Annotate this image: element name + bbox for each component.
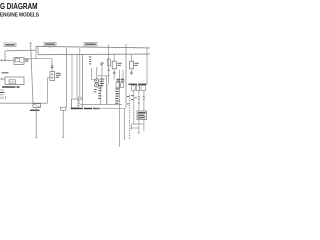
- wire V124 lower: [123, 108, 125, 140]
- ignition coil label below: [2, 86, 20, 87]
- fuse A wire top: [113, 55, 115, 62]
- wire tag marks right: [127, 95, 137, 104]
- fuse A label: [117, 63, 121, 66]
- component text row: [71, 108, 100, 109]
- magneto terminal mark: [61, 107, 66, 110]
- horn label: [100, 79, 105, 87]
- starter relay R1: [50, 72, 55, 81]
- wire corner lower left: [132, 124, 134, 130]
- label box main switch: [44, 42, 56, 46]
- connector block 3: [141, 86, 146, 91]
- wire bus H1 left: [5, 49, 36, 52]
- wire vertical V30 long: [29, 43, 33, 105]
- pickup label: [30, 110, 40, 111]
- wire right edge vertical: [146, 48, 148, 85]
- wire vertical V119: [119, 70, 121, 147]
- wire vertical V82 long: [82, 54, 84, 107]
- wire color marks V90: [89, 57, 91, 65]
- ignition coil label top: [2, 72, 9, 73]
- cdi top connector: [78, 97, 82, 99]
- fuse A: [112, 61, 116, 69]
- connector block 2: [136, 86, 140, 91]
- svg-text:ENGINE MODELS: ENGINE MODELS: [0, 12, 39, 18]
- wire vertical below magneto: [62, 110, 64, 137]
- relay label: [56, 73, 61, 78]
- fuse B wire bottom: [130, 69, 133, 75]
- wire vertical to horn top: [96, 67, 98, 79]
- wire to relay coil: [92, 68, 95, 79]
- cdi unit box: [72, 99, 81, 108]
- label box harness: [84, 42, 97, 46]
- right cluster text block upper: [116, 79, 124, 82]
- wire feed to main switch: [0, 59, 14, 62]
- marks below horn: [94, 89, 97, 92]
- fuse B wire top: [131, 55, 133, 62]
- wire corner left drop: [4, 51, 6, 61]
- wire stub above H1: [108, 45, 110, 48]
- wire join lower a: [134, 123, 144, 125]
- wire below block 1: [133, 91, 135, 125]
- wire vertical V80: [79, 48, 81, 97]
- wire drop b: [106, 76, 108, 105]
- left column labels mid: [98, 85, 101, 99]
- wire switch drop V36: [35, 50, 37, 59]
- title line 1: [0, 1, 38, 11]
- wire bus H1 main: [36, 46, 150, 48]
- wire label leader: [49, 46, 51, 48]
- wire below block 3: [143, 91, 145, 112]
- fuse B: [130, 61, 134, 69]
- wire stub left 1: [0, 89, 4, 91]
- wire feed to coil: [0, 78, 5, 80]
- wire vertical to cdi a: [71, 55, 73, 98]
- wire bus H1 step: [35, 46, 37, 50]
- wire vertical to cdi b: [76, 55, 78, 98]
- wire vertical V126 long: [125, 44, 127, 108]
- wire below unit b: [143, 120, 145, 131]
- svg-text:G DIAGRAM: G DIAGRAM: [0, 1, 38, 11]
- wire horizontal H4: [80, 104, 122, 106]
- rectifier unit box: [137, 111, 147, 120]
- wire bus H2 riser: [37, 47, 39, 54]
- wire join lower b: [130, 127, 139, 129]
- fuse A wire bottom: [113, 69, 116, 80]
- label box battery: [4, 43, 16, 47]
- wire vertical V108: [107, 48, 110, 84]
- wire corner to relay: [51, 59, 54, 72]
- wire below block 2: [138, 91, 140, 112]
- wire vertical V100: [100, 85, 102, 105]
- wire horizontal H5: [95, 107, 124, 109]
- horn coils: [95, 79, 99, 87]
- wire vertical V123: [122, 70, 124, 80]
- wire stub left 2: [0, 94, 4, 96]
- marked wire V129: [129, 95, 131, 140]
- fuse B label: [134, 63, 138, 66]
- title line 2: [0, 12, 39, 18]
- connector pair boxes: [116, 83, 124, 88]
- wire vertical V66 long: [66, 48, 68, 107]
- wire vertical below pickup: [35, 107, 37, 137]
- wire bus H2: [38, 53, 150, 56]
- wire vertical V102: [101, 66, 103, 76]
- wire tag marks: [101, 63, 104, 66]
- right cluster text block lower: [115, 88, 119, 103]
- wire vertical V90: [89, 56, 91, 57]
- wire drop a: [101, 76, 103, 89]
- pickup coil symbol: [33, 104, 41, 108]
- main switch SW1: [14, 58, 24, 65]
- wire bracket right: [97, 75, 110, 77]
- wire vertical V47: [48, 78, 51, 104]
- connector row label: [129, 84, 147, 85]
- wire switch output: [24, 58, 52, 60]
- wire below unit a: [138, 120, 140, 133]
- ignition coil box: [5, 77, 24, 85]
- main switch label: [25, 59, 29, 62]
- wire vertical V107: [106, 84, 108, 105]
- wire horizontal H3: [0, 102, 48, 104]
- connector block 1: [132, 86, 136, 91]
- stub label: [0, 92, 5, 93]
- connector ticks left: [1, 97, 6, 100]
